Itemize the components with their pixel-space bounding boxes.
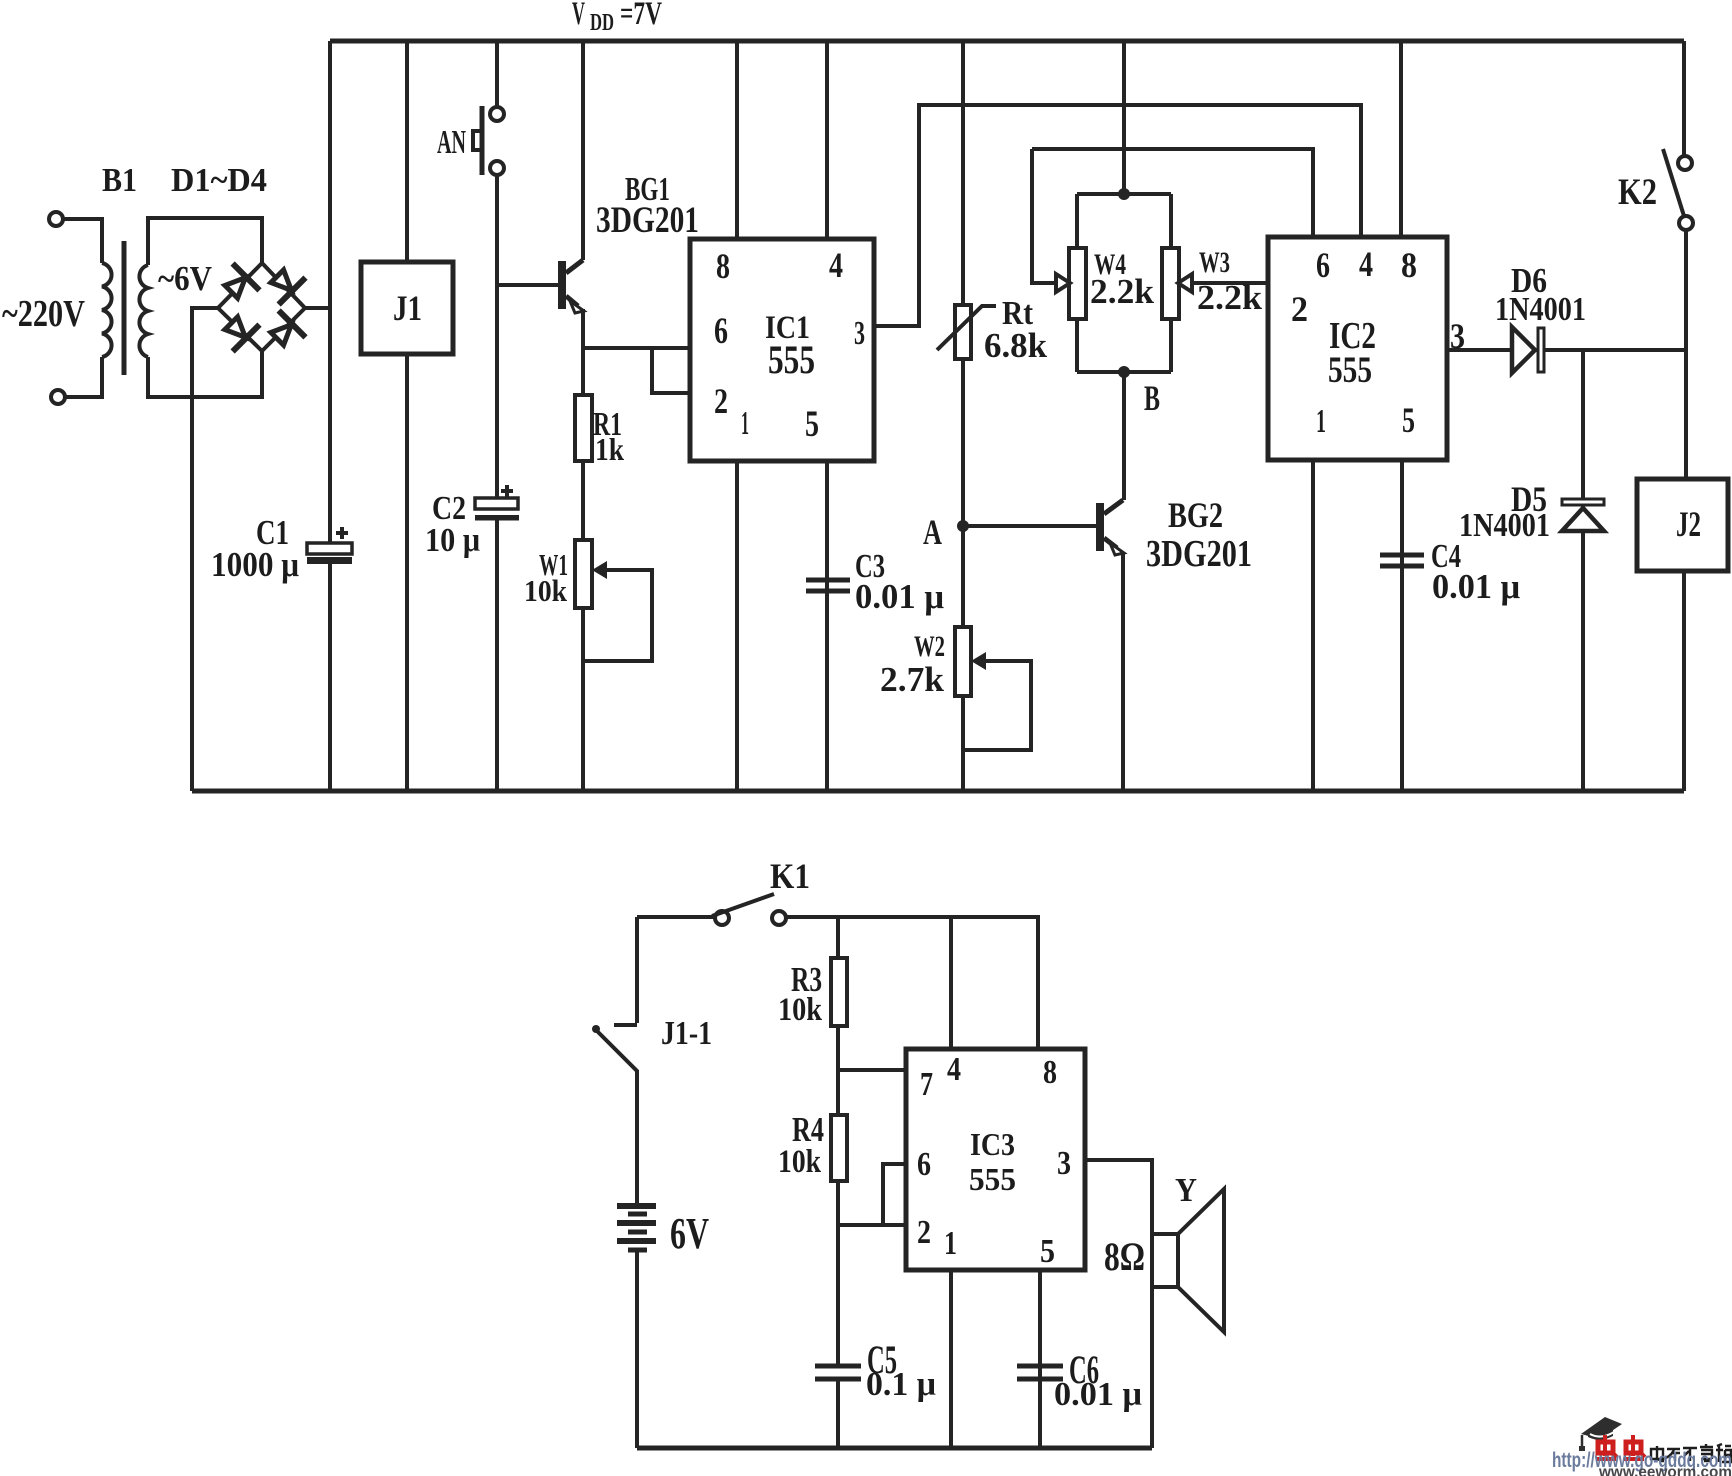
svg-text:8: 8 [1401, 245, 1417, 285]
svg-text:1: 1 [944, 1225, 957, 1262]
svg-text:DD: DD [590, 10, 614, 36]
svg-text:B: B [1144, 378, 1160, 418]
svg-text:1: 1 [1316, 403, 1326, 440]
svg-text:4: 4 [947, 1051, 961, 1088]
svg-text:J1-1: J1-1 [661, 1015, 712, 1052]
svg-text:8Ω: 8Ω [1104, 1234, 1145, 1279]
svg-text:1: 1 [741, 405, 749, 442]
svg-text:10k: 10k [778, 992, 823, 1028]
svg-text:3DG201: 3DG201 [596, 200, 699, 241]
svg-text:W2: W2 [914, 630, 945, 663]
svg-text:0.01 μ: 0.01 μ [1432, 567, 1520, 606]
svg-text:W3: W3 [1199, 246, 1230, 279]
svg-text:555: 555 [969, 1161, 1016, 1197]
svg-text:K2: K2 [1618, 172, 1657, 213]
svg-text:555: 555 [768, 337, 815, 382]
svg-text:1k: 1k [595, 431, 624, 467]
svg-text:4: 4 [1359, 244, 1373, 284]
svg-text:3: 3 [854, 315, 865, 352]
svg-text:2.2k: 2.2k [1197, 278, 1263, 317]
svg-text:~6V: ~6V [158, 259, 212, 298]
svg-text:Y: Y [1175, 1172, 1197, 1209]
svg-text:K1: K1 [770, 856, 810, 896]
svg-text:5: 5 [1040, 1233, 1055, 1270]
svg-text:8: 8 [1043, 1054, 1057, 1091]
svg-text:5: 5 [1402, 400, 1415, 440]
svg-text:0.01 μ: 0.01 μ [1054, 1376, 1142, 1413]
svg-text:2: 2 [917, 1214, 931, 1251]
svg-text:J1: J1 [393, 288, 422, 328]
svg-text:V: V [572, 0, 585, 32]
svg-text:7: 7 [920, 1066, 933, 1103]
svg-text:0.1 μ: 0.1 μ [866, 1366, 936, 1403]
svg-text:1000 μ: 1000 μ [211, 545, 299, 584]
svg-text:1N4001: 1N4001 [1495, 291, 1586, 328]
svg-text:6: 6 [917, 1146, 931, 1183]
svg-text:=7V: =7V [620, 0, 662, 32]
svg-text:2.2k: 2.2k [1090, 272, 1155, 311]
svg-text:5: 5 [805, 404, 819, 445]
svg-text:2: 2 [714, 381, 728, 421]
svg-text:~220V: ~220V [2, 293, 85, 335]
svg-text:10 μ: 10 μ [425, 522, 480, 559]
svg-text:4: 4 [829, 245, 843, 285]
svg-text:3: 3 [1057, 1145, 1071, 1182]
svg-text:J2: J2 [1676, 504, 1701, 544]
svg-text:3: 3 [1450, 316, 1465, 356]
svg-text:3DG201: 3DG201 [1146, 533, 1252, 575]
svg-text:2.7k: 2.7k [880, 660, 945, 699]
svg-text:10k: 10k [524, 573, 568, 608]
svg-text:www.eeworm.com: www.eeworm.com [1598, 1464, 1732, 1476]
svg-text:A: A [923, 512, 942, 552]
svg-text:0.01 μ: 0.01 μ [855, 577, 944, 616]
svg-text:IC3: IC3 [970, 1126, 1015, 1162]
svg-text:10k: 10k [778, 1144, 822, 1180]
svg-text:6V: 6V [670, 1209, 709, 1258]
svg-text:2: 2 [1291, 289, 1308, 329]
svg-text:B1: B1 [102, 162, 137, 199]
svg-text:AN: AN [437, 124, 466, 161]
svg-text:BG2: BG2 [1168, 495, 1223, 535]
svg-text:D1~D4: D1~D4 [171, 162, 267, 199]
svg-text:1N4001: 1N4001 [1459, 507, 1550, 544]
svg-text:8: 8 [716, 246, 730, 286]
svg-text:555: 555 [1328, 350, 1372, 391]
svg-text:6.8k: 6.8k [984, 326, 1048, 365]
svg-text:6: 6 [1316, 245, 1330, 285]
svg-text:6: 6 [714, 311, 728, 352]
